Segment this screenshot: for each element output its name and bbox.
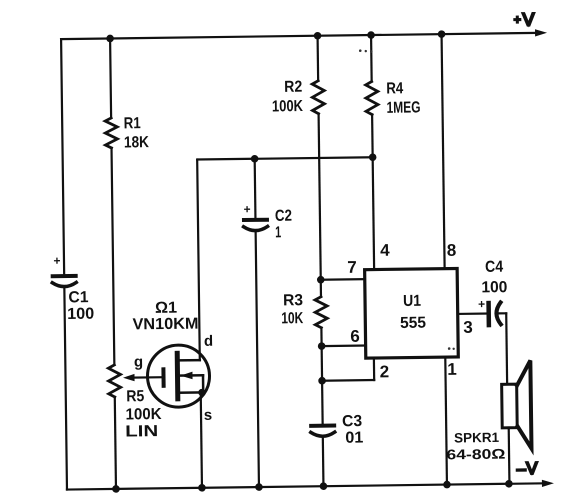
svg-text:100: 100 — [481, 279, 507, 296]
wire speaker column — [506, 313, 509, 483]
svg-text:C2: C2 — [275, 208, 292, 225]
svg-text:R2: R2 — [284, 79, 302, 96]
svg-text:U1: U1 — [403, 293, 421, 310]
wire R1/R5 column — [110, 38, 116, 488]
node bottom rail junction Q1 source — [198, 484, 206, 492]
svg-text:C3: C3 — [342, 413, 362, 430]
op-amp U1 555 timer box — [365, 268, 459, 358]
resistor R3 10K — [281, 292, 327, 328]
svg-text:01: 01 — [345, 429, 363, 446]
node bottom rail junction R5 — [112, 485, 120, 493]
wire pin 2 — [322, 358, 374, 381]
svg-text:d: d — [204, 333, 213, 350]
node top rail junction R2 — [314, 32, 322, 40]
capacitor C4 100 — [477, 259, 507, 326]
node bottom rail junction C3 — [320, 482, 328, 490]
svg-text:R4: R4 — [386, 80, 403, 97]
svg-text:1MEG: 1MEG — [386, 99, 420, 116]
svg-text:100K: 100K — [272, 98, 304, 115]
node bottom rail junction speaker — [505, 480, 513, 488]
svg-text:4: 4 — [380, 241, 390, 260]
wire C2 column — [255, 159, 259, 487]
svg-text:2: 2 — [380, 362, 390, 381]
svg-text:18K: 18K — [124, 134, 150, 151]
resistor R1 18K — [105, 115, 149, 152]
wire pin 1 down — [445, 357, 447, 484]
node pin 2 junction — [318, 377, 326, 385]
svg-text:+: + — [53, 254, 60, 268]
capacitor C1 — [52, 253, 94, 323]
svg-text:C1: C1 — [68, 289, 88, 306]
svg-text:3: 3 — [463, 318, 473, 337]
svg-text:1: 1 — [447, 360, 457, 379]
svg-text:555: 555 — [400, 315, 426, 332]
svg-text:g: g — [134, 354, 143, 371]
wire pin 7 — [321, 278, 365, 281]
svg-text:VN10KM: VN10KM — [132, 316, 198, 334]
svg-text:R5: R5 — [126, 388, 144, 405]
svg-text:7: 7 — [347, 258, 357, 277]
node bottom rail junction C2 — [255, 483, 263, 491]
svg-text:s: s — [204, 407, 213, 424]
wire Q1 drain up — [197, 160, 200, 361]
wire R4 column — [371, 35, 374, 269]
node top rail junction pin8 — [438, 30, 446, 38]
svg-text:C4: C4 — [485, 259, 503, 276]
capacitor C3 01 — [311, 413, 364, 447]
speaker SPKR1 64-80ohm — [445, 360, 531, 462]
svg-text:100K: 100K — [125, 406, 162, 423]
wire reset node horizontal — [197, 157, 372, 159]
svg-text:LIN: LIN — [125, 423, 158, 440]
node C2 top junction — [251, 155, 259, 163]
svg-text:R1: R1 — [124, 115, 141, 132]
svg-text:8: 8 — [447, 241, 457, 260]
wire left column C1 — [61, 39, 67, 489]
resistor R2 100K — [272, 78, 325, 115]
wire pin 3 — [458, 312, 506, 315]
svg-text:10K: 10K — [281, 310, 304, 327]
scan specks — [359, 48, 455, 351]
transistor Q1 VN10KM MOSFET — [132, 299, 214, 425]
potentiometer R5 100K LIN — [108, 353, 164, 440]
svg-text:+: + — [478, 297, 485, 311]
svg-text:Ω1: Ω1 — [155, 300, 177, 317]
wire pin8 column — [442, 34, 445, 268]
svg-text:R3: R3 — [283, 292, 303, 309]
node pin 6 junction — [318, 342, 326, 350]
node top rail junction R4 — [367, 31, 375, 39]
capacitor C2 1 — [243, 202, 292, 242]
svg-text:+: + — [243, 202, 250, 216]
svg-text:1: 1 — [275, 224, 281, 241]
wire pin 6 — [322, 344, 366, 347]
wire top rail +V — [61, 29, 547, 43]
svg-text:–V: –V — [517, 459, 539, 478]
svg-text:6: 6 — [350, 327, 360, 346]
node R4 reset junction — [369, 153, 377, 161]
svg-text:+V: +V — [514, 9, 535, 29]
svg-text:SPKR1: SPKR1 — [454, 430, 500, 446]
node bottom rail junction pin1 — [443, 481, 451, 489]
svg-text:100: 100 — [67, 306, 94, 323]
wire Q1 source down — [201, 392, 202, 487]
resistor R4 1MEG — [366, 80, 421, 117]
node pin 7 junction — [317, 276, 325, 284]
wire R2/R3/C3 column — [318, 36, 324, 486]
node top rail junction R1 — [106, 35, 114, 43]
svg-text:64-80Ω: 64-80Ω — [446, 446, 505, 463]
wire bottom rail -V — [67, 480, 554, 494]
